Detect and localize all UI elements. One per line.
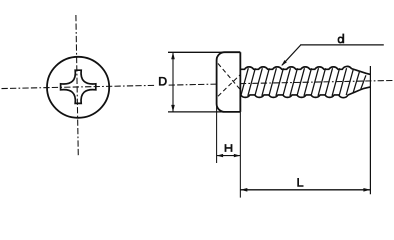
arrow L left — [240, 188, 247, 192]
d leader line — [282, 45, 301, 65]
extension line D top — [168, 51, 225, 53]
head right face line — [239, 52, 241, 112]
dimension line D (vertical) — [172, 53, 174, 112]
head right extension line — [239, 112, 241, 198]
arrow D bottom — [171, 105, 175, 112]
screw shank thread crest top edge — [240, 66, 370, 74]
dimension line L — [240, 189, 370, 191]
label D — [159, 77, 167, 86]
arrow D top — [171, 52, 175, 59]
head interior mask — [218, 54, 239, 111]
extension line L right (through screw point) — [369, 66, 371, 194]
thread flank line on point 1 — [346, 69, 353, 95]
hidden line recess upper — [218, 64, 241, 91]
arrow L right — [363, 188, 370, 192]
arrow H right — [234, 154, 241, 157]
label D mask — [156, 76, 168, 87]
d reference line — [300, 44, 384, 46]
label H — [225, 144, 233, 152]
label L — [297, 178, 303, 187]
wire horizontal centerline (axis through both views) — [2, 80, 394, 88]
arrow d leader — [281, 60, 287, 66]
dimension line H — [217, 155, 241, 157]
phillips cross recess (front view) — [61, 70, 96, 103]
thread flank line on point 3 — [361, 75, 366, 89]
extension line D bottom — [168, 111, 225, 113]
wire vertical centerline (head front view axis) — [76, 15, 78, 157]
screw shank thread root bottom edge — [240, 87, 370, 98]
hidden line recess lower — [218, 74, 241, 96]
thread flank lines — [241, 68, 249, 96]
label d — [338, 34, 345, 44]
thread flank line on point 2 — [353, 71, 360, 93]
screw head side view (pan head outline) — [217, 52, 241, 112]
extension line H left — [216, 104, 218, 163]
screw head front view (circle) — [47, 57, 109, 118]
arrow H left — [217, 154, 224, 157]
